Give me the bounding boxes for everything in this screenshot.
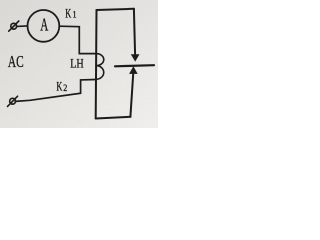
right upper lead with down arrow: [131, 9, 140, 62]
svg-text:2: 2: [63, 82, 67, 93]
core loop top line: [97, 9, 134, 10]
svg-text:K: K: [56, 81, 62, 94]
wire terminal1 to ammeter: [17, 25, 28, 28]
ammeter A: [28, 10, 60, 42]
svg-text:LH: LH: [70, 58, 83, 71]
terminal K1-side binding post: [9, 21, 19, 31]
svg-text:K: K: [65, 8, 71, 21]
svg-text:1: 1: [73, 9, 77, 20]
terminal K2-side binding post: [8, 96, 18, 106]
svg-text:AC: AC: [8, 53, 24, 72]
right lower lead with up arrow: [129, 66, 138, 117]
paper background: [0, 0, 158, 128]
wire terminal2 to coil bottom (slope + riser): [15, 80, 95, 102]
svg-text:A: A: [40, 16, 48, 35]
armature bar: [115, 65, 154, 66]
core loop left spine: [95, 10, 98, 119]
wire ammeter to coil top (L-shape): [59, 26, 96, 53]
inductor LH coil bumps: [96, 54, 104, 80]
core loop bottom line: [96, 117, 131, 119]
